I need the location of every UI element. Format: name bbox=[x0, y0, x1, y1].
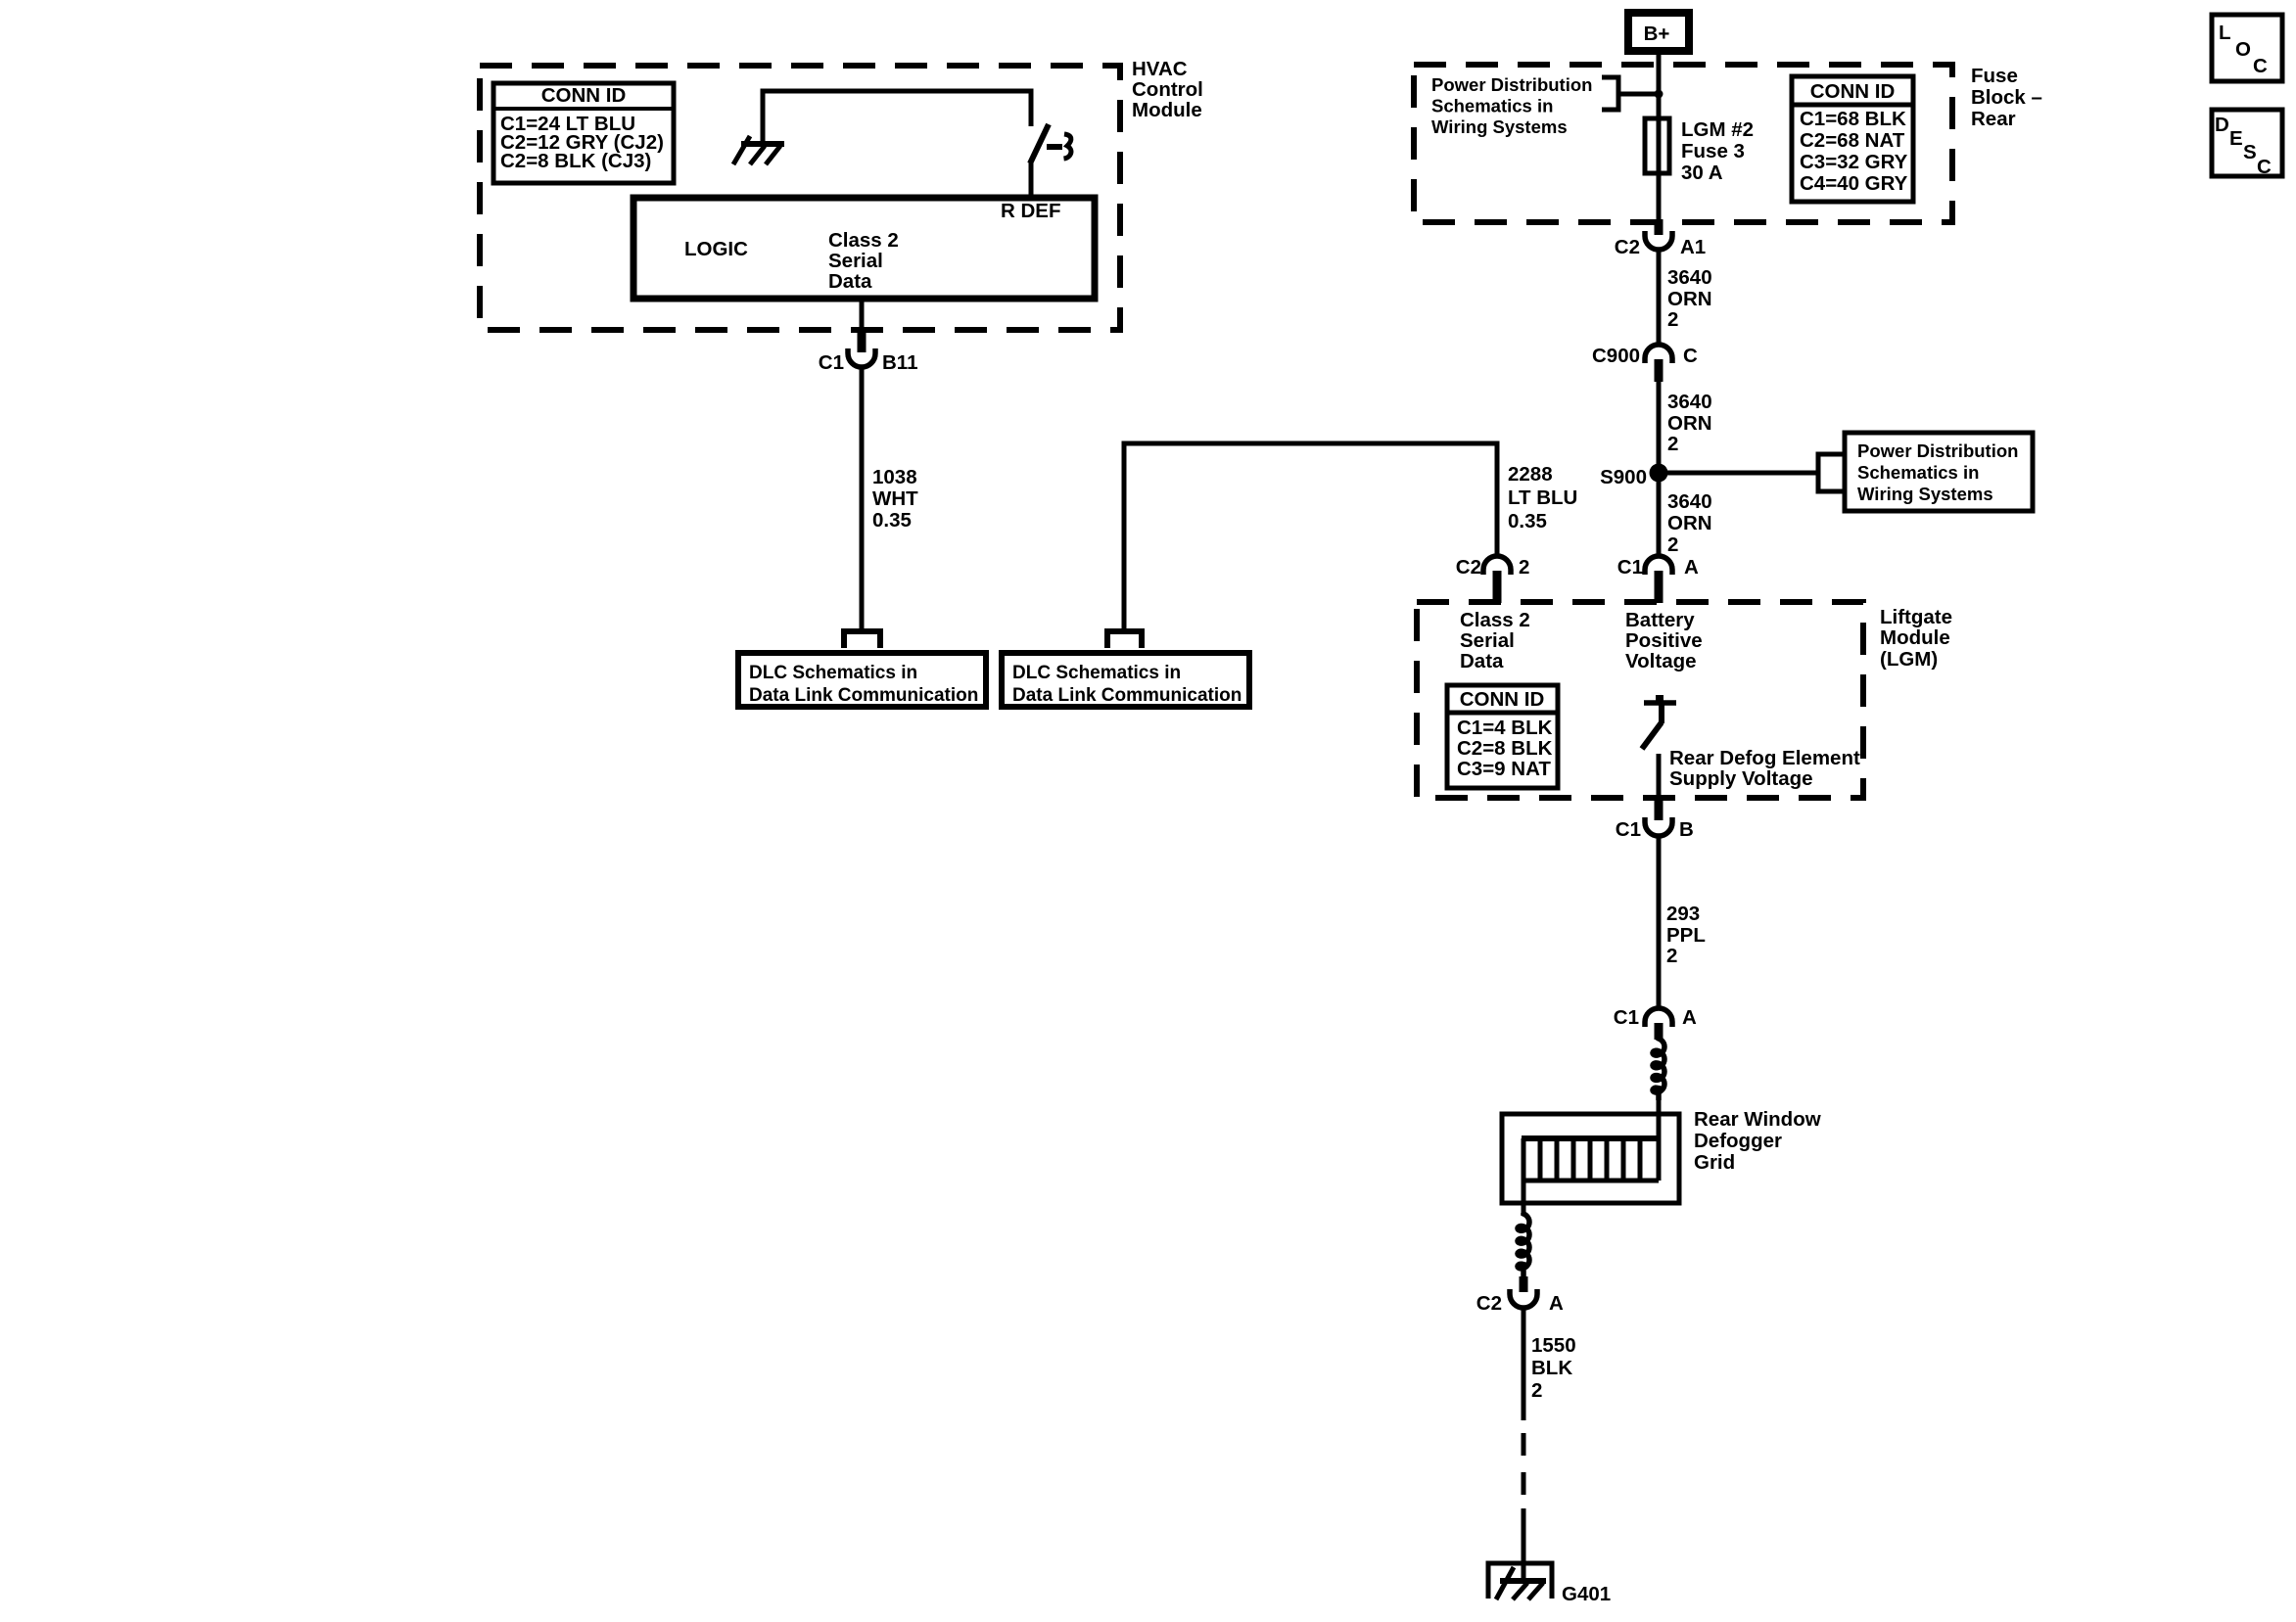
wire coil to grid bbox=[1657, 1098, 1662, 1139]
box DLC Schematics 2 bbox=[1002, 653, 1249, 707]
svg-text:E: E bbox=[2229, 127, 2243, 150]
connector C900 stub bbox=[1655, 359, 1663, 382]
svg-text:293PPL2: 293PPL2 bbox=[1666, 903, 1706, 967]
svg-text:BatteryPositiveVoltage: BatteryPositiveVoltage bbox=[1625, 609, 1703, 672]
svg-text:Power DistributionSchematics i: Power DistributionSchematics inWiring Sy… bbox=[1857, 440, 2018, 504]
svg-text:HVACControlModule: HVACControlModule bbox=[1132, 58, 1203, 121]
wire internal: ground to R DEF switch bbox=[763, 91, 1031, 143]
coiled lead into defogger grid bbox=[1653, 1038, 1664, 1100]
svg-text:C: C bbox=[1683, 345, 1698, 367]
svg-text:O: O bbox=[2235, 38, 2251, 61]
svg-text:C1: C1 bbox=[1614, 1006, 1639, 1029]
box LOGIC bbox=[633, 198, 1095, 299]
connector C900 arc bbox=[1645, 345, 1672, 363]
wire (off-page dashed) bbox=[1522, 1433, 1526, 1456]
connector bracket to DLC box 1 bbox=[844, 631, 880, 648]
svg-text:A: A bbox=[1682, 1006, 1697, 1029]
connector C1/B11 arc bbox=[848, 348, 875, 367]
wire 3640 ORN 2 (S900 to C1/A) bbox=[1657, 473, 1662, 556]
svg-text:3640ORN2: 3640ORN2 bbox=[1667, 266, 1712, 331]
ground (HVAC internal) bbox=[733, 136, 784, 164]
svg-text:DLC Schematics inData Link Com: DLC Schematics inData Link Communication bbox=[749, 663, 978, 706]
svg-text:D: D bbox=[2215, 114, 2229, 136]
switch R DEF (HVAC internal) bbox=[1030, 124, 1071, 198]
svg-text:B11: B11 bbox=[882, 351, 917, 374]
wire class 2 serial data branch bbox=[1124, 443, 1497, 631]
connector C1/A (defogger) stub bbox=[1655, 1023, 1663, 1040]
svg-text:G401: G401 bbox=[1562, 1583, 1611, 1605]
wire to ground G401 bbox=[1522, 1508, 1526, 1579]
svg-text:Power DistributionSchematics i: Power DistributionSchematics inWiring Sy… bbox=[1431, 74, 1592, 137]
connector C1/B arc bbox=[1645, 817, 1672, 836]
svg-text:LiftgateModule(LGM): LiftgateModule(LGM) bbox=[1880, 606, 1952, 671]
svg-text:B+: B+ bbox=[1644, 23, 1670, 45]
svg-text:C1=24 LT BLUC2=12 GRY (CJ2)C2=: C1=24 LT BLUC2=12 GRY (CJ2)C2=8 BLK (CJ3… bbox=[500, 113, 664, 172]
module Liftgate Module (LGM) dashed box bbox=[1417, 602, 1863, 798]
wire B+ to fuse to C2/A1 bbox=[1657, 55, 1662, 219]
defogger grid element comb bbox=[1522, 1138, 1659, 1214]
svg-text:A: A bbox=[1549, 1292, 1564, 1315]
svg-text:R DEF: R DEF bbox=[1001, 200, 1061, 222]
svg-text:C1=4 BLKC2=8 BLKC3=9 NAT: C1=4 BLKC2=8 BLKC3=9 NAT bbox=[1457, 717, 1553, 780]
fuse LGM #2 Fuse 3 30 A bbox=[1645, 118, 1669, 173]
coiled lead out of defogger grid bbox=[1518, 1213, 1529, 1276]
connector C1/B11 stub bbox=[858, 333, 867, 352]
connector C1/A stub bbox=[1655, 571, 1663, 603]
svg-text:A: A bbox=[1684, 556, 1699, 579]
svg-text:Class 2SerialData: Class 2SerialData bbox=[828, 229, 899, 293]
svg-text:Class 2SerialData: Class 2SerialData bbox=[1460, 609, 1530, 672]
connector C2/2 stub bbox=[1493, 571, 1502, 603]
svg-text:C1: C1 bbox=[1616, 818, 1641, 841]
svg-text:C: C bbox=[2253, 55, 2268, 77]
svg-text:S900: S900 bbox=[1600, 466, 1647, 488]
svg-text:CONN ID: CONN ID bbox=[1460, 688, 1545, 711]
svg-text:Rear WindowDefoggerGrid: Rear WindowDefoggerGrid bbox=[1694, 1108, 1821, 1174]
svg-text:2288LT BLU0.35: 2288LT BLU0.35 bbox=[1508, 463, 1577, 533]
wire (off-page dashed) bbox=[1522, 1472, 1526, 1495]
tab DESC bbox=[2212, 110, 2282, 178]
box DLC Schematics 1 bbox=[738, 653, 986, 707]
switch rear defog element (LGM internal) bbox=[1642, 695, 1676, 749]
svg-text:C: C bbox=[2257, 156, 2272, 178]
wire 293 PPL 2 bbox=[1657, 837, 1662, 1007]
connector bracket to DLC box 2 bbox=[1107, 631, 1142, 648]
connector C2/A1 arc bbox=[1645, 231, 1672, 250]
tab LOC bbox=[2212, 15, 2282, 81]
wire 1550 BLK 2 bbox=[1522, 1309, 1526, 1420]
power feed B+ box bbox=[1628, 13, 1689, 51]
svg-text:LGM #2Fuse 330 A: LGM #2Fuse 330 A bbox=[1681, 118, 1754, 184]
connector C2/2 arc bbox=[1483, 556, 1511, 575]
svg-text:DLC Schematics inData Link Com: DLC Schematics inData Link Communication bbox=[1012, 663, 1242, 706]
svg-text:2: 2 bbox=[1519, 556, 1529, 579]
svg-text:C1: C1 bbox=[1617, 556, 1643, 579]
svg-text:1038WHT0.35: 1038WHT0.35 bbox=[872, 466, 918, 532]
svg-text:CONN ID: CONN ID bbox=[1810, 80, 1896, 103]
svg-text:C2: C2 bbox=[1456, 556, 1481, 579]
box Power Distribution Schematics in Wiring Systems bbox=[1845, 433, 2033, 511]
wire 3640 ORN 2 (C900 to S900) bbox=[1657, 382, 1662, 473]
svg-text:LOGIC: LOGIC bbox=[684, 238, 748, 260]
ground G401 bbox=[1488, 1563, 1552, 1599]
wire 1038 WHT 0.35 bbox=[860, 368, 865, 631]
svg-text:Rear Defog ElementSupply Volta: Rear Defog ElementSupply Voltage bbox=[1669, 747, 1860, 790]
table CONN ID (fuse block) bbox=[1792, 76, 1913, 202]
svg-text:C2: C2 bbox=[1615, 236, 1640, 258]
connector C1/A arc bbox=[1645, 556, 1672, 575]
connector C1/A (defogger) arc bbox=[1645, 1008, 1672, 1027]
splice S900 junction dot bbox=[1650, 464, 1668, 483]
wire power distribution tap bbox=[1618, 92, 1659, 97]
junction dot on B+ feed bbox=[1655, 90, 1663, 99]
svg-text:C1=68 BLKC2=68 NATC3=32 GRYC4=: C1=68 BLKC2=68 NATC3=32 GRYC4=40 GRY bbox=[1800, 108, 1908, 195]
svg-text:C2: C2 bbox=[1476, 1292, 1502, 1315]
connector C1/B stub bbox=[1655, 797, 1663, 820]
wire switch to C1/B bbox=[1657, 754, 1662, 797]
table CONN ID (HVAC) bbox=[493, 83, 674, 183]
svg-text:A1: A1 bbox=[1680, 236, 1706, 258]
svg-text:C900: C900 bbox=[1592, 345, 1640, 367]
svg-text:S: S bbox=[2243, 141, 2257, 163]
svg-text:C1: C1 bbox=[819, 351, 844, 374]
svg-text:B: B bbox=[1679, 818, 1694, 841]
component Rear Window Defogger Grid box bbox=[1502, 1114, 1679, 1203]
svg-text:3640ORN2: 3640ORN2 bbox=[1667, 391, 1712, 455]
wire 3640 ORN 2 (fuse to C900) bbox=[1657, 251, 1662, 346]
svg-text:CONN ID: CONN ID bbox=[541, 84, 627, 107]
svg-text:L: L bbox=[2219, 22, 2231, 44]
connector C2/A stub bbox=[1520, 1276, 1528, 1292]
module Fuse Block - Rear dashed box bbox=[1414, 65, 1952, 222]
wire LOGIC to C1/B11 bbox=[860, 299, 865, 333]
bracket power distribution reference bbox=[1602, 77, 1618, 110]
svg-text:1550BLK2: 1550BLK2 bbox=[1531, 1334, 1576, 1402]
svg-text:3640ORN2: 3640ORN2 bbox=[1667, 490, 1712, 556]
connector C2/A1 stub bbox=[1655, 219, 1663, 235]
connector C2/A arc bbox=[1510, 1289, 1537, 1308]
svg-text:FuseBlock –Rear: FuseBlock –Rear bbox=[1971, 65, 2042, 130]
module HVAC Control Module dashed box bbox=[480, 66, 1120, 330]
bracket power distribution reference (right) bbox=[1818, 454, 1843, 491]
wire S900 to power distribution bbox=[1659, 471, 1818, 476]
table CONN ID (LGM) bbox=[1447, 685, 1558, 788]
